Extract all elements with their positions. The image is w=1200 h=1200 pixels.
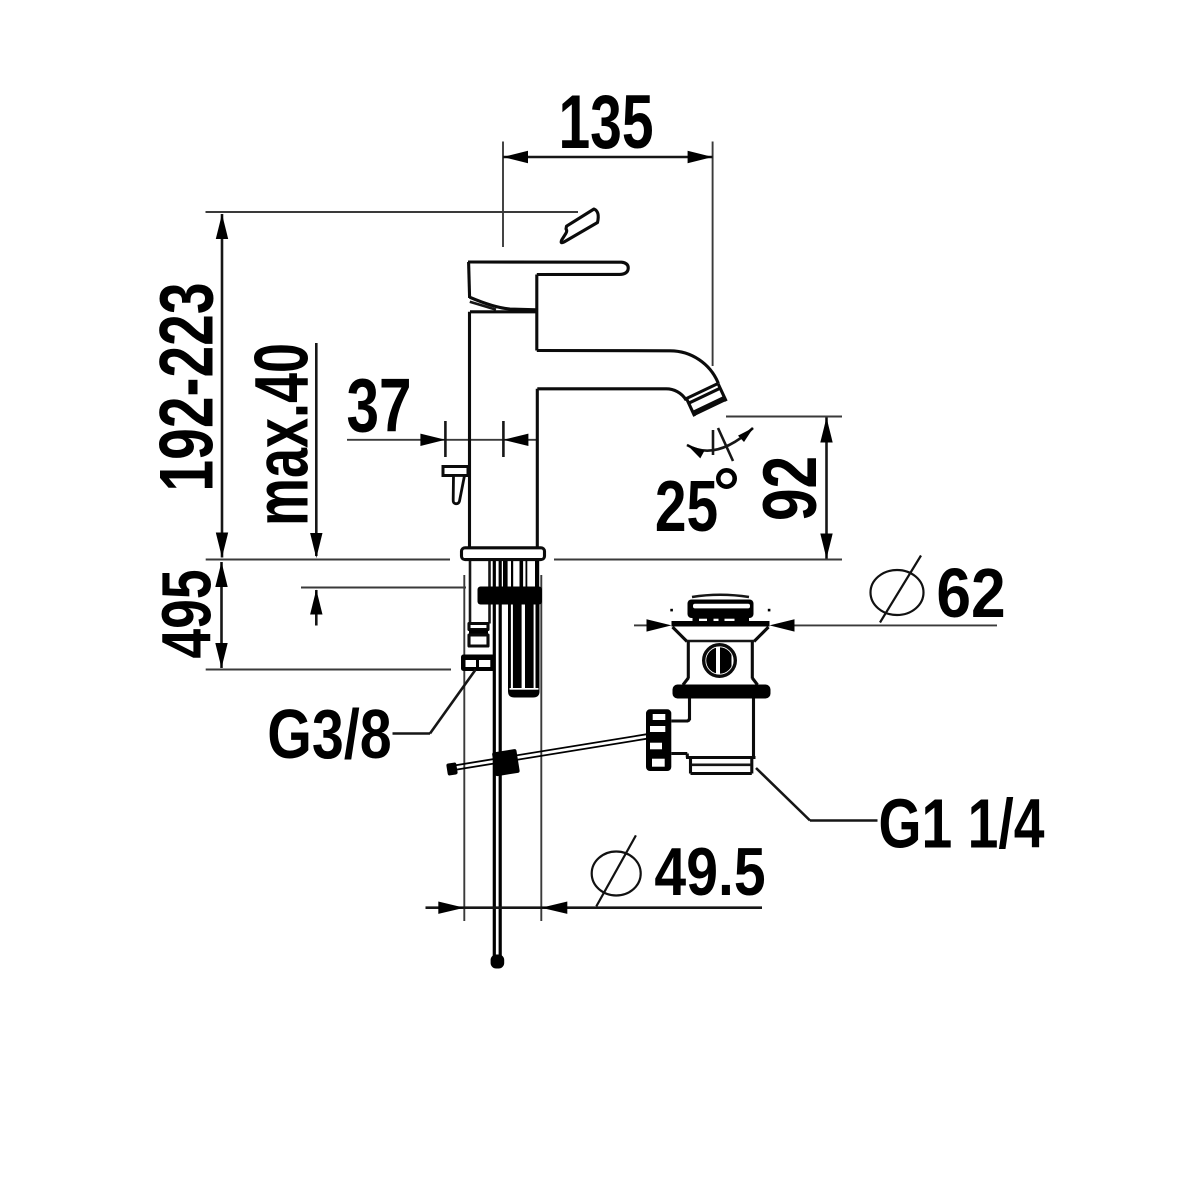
svg-text:49.5: 49.5 (654, 834, 765, 910)
svg-text:135: 135 (558, 80, 653, 165)
svg-text:192-223: 192-223 (145, 282, 230, 491)
svg-text:G1 1/4: G1 1/4 (879, 785, 1045, 863)
flexible hose cylinder (508, 605, 540, 698)
handle phantom parallelogram (561, 209, 598, 243)
lower reference line (495 end) (206, 669, 451, 671)
drain tailpipe (691, 758, 752, 774)
dimension phi 49.5 (426, 834, 766, 914)
G3/8 collar stack (469, 624, 488, 647)
supply tube below base (470, 561, 490, 624)
label G1 1/4 with leader (756, 768, 1044, 863)
dimension 135 (503, 80, 713, 366)
body clamp tab (443, 467, 468, 504)
drain lower body (671, 699, 755, 758)
threaded shank bars (503, 561, 539, 587)
svg-text:max.40: max.40 (238, 343, 323, 526)
G3/8 block (461, 655, 495, 672)
rod clamp (492, 749, 520, 777)
phi 49.5 extension lines (464, 575, 541, 921)
dimension 37 (346, 364, 537, 457)
svg-text:92: 92 (749, 456, 833, 521)
dimension 495 (149, 562, 228, 668)
base plate (462, 548, 545, 560)
drain cap (688, 595, 754, 625)
dimension phi 62 (634, 555, 1006, 633)
mounting nut (478, 587, 543, 605)
drain flange (670, 609, 770, 642)
drain knurled nut (646, 709, 671, 771)
reference line handle top (206, 211, 579, 213)
faucet body and spout (470, 275, 719, 549)
svg-text:62: 62 (936, 555, 1005, 633)
drain seal ring (673, 685, 771, 699)
handle-body seam (470, 302, 496, 310)
mounting surface line (206, 559, 842, 561)
pop-up rod (vertical) (491, 561, 505, 969)
label G3/8 with leader (267, 670, 475, 774)
drain screw (704, 645, 736, 677)
faucet handle lever (468, 262, 628, 310)
dimension max.40 (238, 343, 323, 626)
drain upper body (683, 642, 758, 685)
svg-text:495: 495 (149, 569, 227, 658)
angle 25 deg annotation (655, 428, 754, 547)
svg-text:37: 37 (346, 364, 411, 448)
horizontal pop-up rod (446, 734, 647, 776)
counter underside line (301, 587, 466, 589)
svg-text:25: 25 (655, 466, 718, 547)
dimension 92 (726, 417, 842, 559)
svg-text:G3/8: G3/8 (267, 695, 391, 774)
dimension 192-223 (145, 214, 230, 558)
spout aerator bands and end cap (687, 384, 727, 417)
